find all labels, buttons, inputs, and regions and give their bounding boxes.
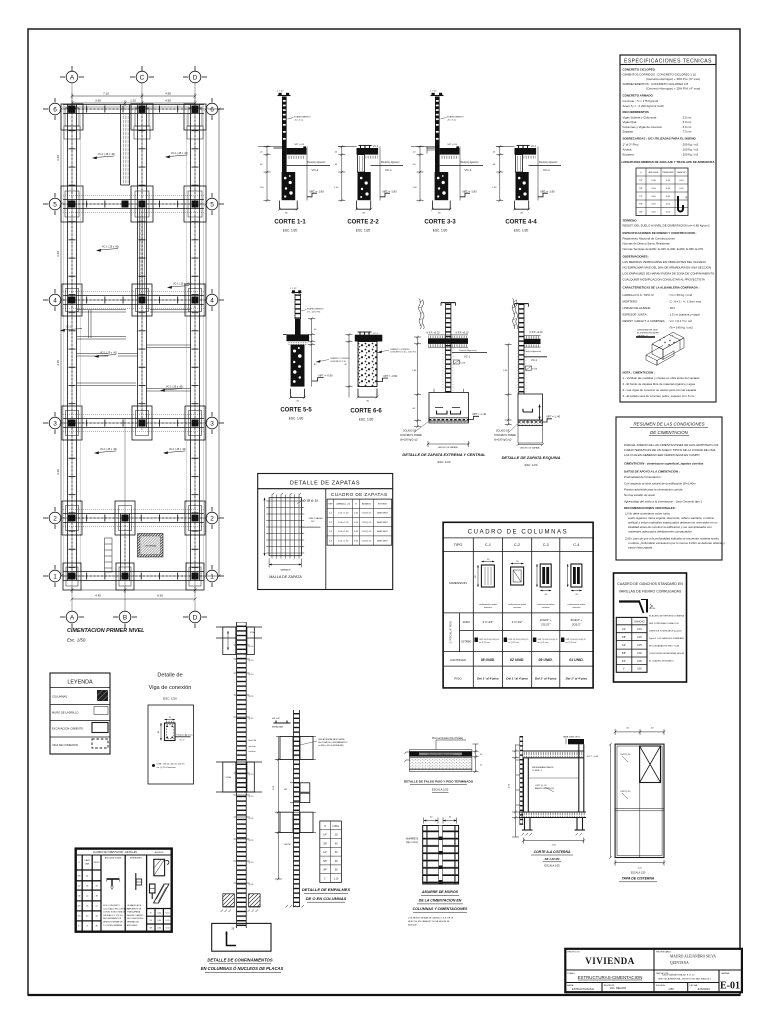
amarre top dims [424,818,457,824]
svg-text:AREA:: AREA: [567,984,574,987]
detalle zapata esquina: bottom dim [517,443,544,446]
svg-text:O1/2@.15: O1/2@.15 [362,522,372,524]
svg-text:Acero f'y = : 4,200 Kg/cm2 G-6: Acero f'y = : 4,200 Kg/cm2 G-60 [623,104,665,108]
svg-text:CANTIDAD: CANTIDAD [450,658,467,662]
svg-text:LONGITUDES MINIMAS DE ANCLAJE: LONGITUDES MINIMAS DE ANCLAJE Y TRASLAPE… [622,160,716,164]
svg-text:1: 1 [210,573,214,580]
malla leader label [297,498,318,503]
footing Z at A5 [61,186,83,222]
svg-text:CONCRETO 1:10 + 30% P.G.: CONCRETO 1:10 + 30% P.G. [390,352,417,354]
svg-text:VAR: VAR [85,863,90,866]
corte 5-5 right dim line [308,317,315,386]
svg-text:3: 3 [210,420,214,427]
svg-text:ESTRUCTURAS-E: ESTRUCTURAS-E [572,987,594,991]
corte 5-5 top anchor [290,288,302,294]
malla left dim [264,498,266,556]
corte 5-5 footing [291,345,305,387]
svg-text:2.- El fondo de zapatas libre: 2.- El fondo de zapatas libre de materia… [623,382,696,386]
svg-text:ESCALA 1/25: ESCALA 1/25 [544,865,560,868]
malla bottom dim [269,559,301,568]
viga section hatch above [165,721,175,723]
annotation VC-1 room C5 [167,283,190,289]
corte 3-3 drawing [411,91,483,215]
svg-text:VIGA: VIGA [226,776,232,779]
svg-text:DE 1.00 M3: DE 1.00 M3 [545,857,560,861]
empalmes bottom hatch [286,905,305,908]
svg-text:(Cemento-Hormigon) + 25% P.M.: (Cemento-Hormigon) + 25% P.M. (4" max) [646,86,700,90]
svg-text:ESTRIBO: ESTRIBO [378,504,388,506]
tapa mid lines [615,783,664,858]
svg-text:AMB SENT: AMB SENT [377,539,388,542]
svg-text:O: O [640,172,642,174]
svg-text:Agresividad del suelo a la cim: Agresividad del suelo a la cimentacion :… [623,500,702,504]
tapa opening with X [640,746,661,783]
detalle zapata esquina: NPT step [543,419,553,422]
axis bubble 3 right [206,412,224,434]
svg-text:S/C: S/C [311,521,315,523]
tapa outer rects [615,744,664,857]
svg-text:3/4": 3/4" [622,660,626,663]
svg-text:MORTERO: MORTERO [623,299,638,303]
svg-text:artificial y estos materiales: artificial y estos materiales inadecuado… [628,521,718,525]
svg-text:VC-1: VC-1 [373,333,379,335]
svg-text:1/2": 1/2" [622,644,626,647]
bottom dimension line 1 [71,587,197,593]
svg-text:"Vc-1": "Vc-1" [179,739,185,741]
svg-text:CORTE 5-5: CORTE 5-5 [280,408,312,414]
svg-text:4: 4 [210,297,214,304]
corte 5-5 hatch row [287,342,308,345]
sheet bottom heavy border [28,994,740,996]
footing Z at A2 [62,501,82,535]
axis bubble D top [183,66,207,83]
svg-text:Normas Tecnicas de Edific. E-0: Normas Tecnicas de Edific. E-020, E-030,… [623,247,704,251]
svg-text:Vigas Ppal.: Vigas Ppal. [623,120,638,124]
svg-text:MURO DE LADRILLO: MURO DE LADRILLO [52,711,78,715]
svg-text:COLUMNAS: COLUMNAS [52,695,67,699]
corte 6-6 top anchors [358,332,379,335]
svg-text:LADRILLO K.K. TIPO IV: LADRILLO K.K. TIPO IV [623,293,654,297]
svg-text:3.- Las vigas de conexion se v: 3.- Las vigas de conexion se vacian junt… [623,388,697,392]
svg-text:LAS MEDIDAS VERIFICARSE EN OBR: LAS MEDIDAS VERIFICARSE EN OBRA ANTES DE… [623,260,707,264]
svg-text:MURO: MURO [463,622,470,624]
column section C-1 [475,559,494,587]
svg-text:CORTE 6-6: CORTE 6-6 [350,409,382,415]
svg-text:SOBRECIMIENTOS : CONCRETO CICL: SOBRECIMIENTOS : CONCRETO CICLOPEO 1:8 [623,82,689,86]
detalle zapata extrema: footing box [429,393,469,422]
svg-text:TIPO: TIPO [454,543,463,547]
svg-text:ESTRIBO: ESTRIBO [461,642,471,644]
svg-text:5: 5 [210,201,214,208]
detalle zapata esquina: footing hook and arrow [523,405,541,420]
falso piso layered band [405,750,472,772]
axis bubble B bottom [113,611,137,628]
svg-text:: f'm = 65 Kg / cm2: : f'm = 65 Kg / cm2 [668,293,692,297]
detalle zapata esquina: piso leader [524,350,547,362]
cuadro valores mid glyph 2 (flag) [130,857,142,891]
svg-text:LA VARILLA DE: LA VARILLA DE [127,904,142,907]
leyenda frame [50,673,110,754]
cisterna bottom dim [522,838,585,844]
footing Z at B2 [115,501,135,535]
annotation VC-1 room A3 [94,448,117,454]
title block labels [567,951,730,987]
axis line 3 [61,422,206,424]
wall band axis 4 [63,296,204,305]
svg-text:Concreto : f'c = 175 Kg/cm2: Concreto : f'c = 175 Kg/cm2 [623,99,659,103]
empalmes ladder column [294,710,300,907]
wall cross ticks axis 2 [68,515,204,522]
svg-text:Con respecto al nivel natural: Con respecto al nivel natural de la edif… [624,482,696,486]
svg-text:3.35: 3.35 [56,469,60,475]
svg-text:O3/8":1@.05,4@.10,4@.15: O3/8":1@.05,4@.10,4@.15 [479,639,499,641]
svg-text:rto. @.25 c/extremo: rto. @.25 c/extremo [157,766,177,769]
svg-text:ESC. 1/20: ESC. 1/20 [356,229,371,233]
svg-text:2O1/2": 2O1/2" [540,623,551,627]
svg-text:PROYECTO:: PROYECTO: [567,952,580,954]
svg-text:(fc=100 Kg/Cm2): (fc=100 Kg/Cm2) [494,440,512,442]
svg-text:1.00 x 1.00: 1.00 x 1.00 [338,513,349,515]
svg-text:5: 5 [53,201,57,208]
svg-text:N.F.P. +0.10: N.F.P. +0.10 [456,331,470,334]
detalle zapata extrema: column rebar ladder [441,303,456,393]
svg-text:ANCLAJES: ANCLAJES [127,924,138,927]
right dimension line [205,108,208,578]
svg-text:3.95: 3.95 [95,99,101,103]
svg-text:REFUERZO SE: REFUERZO SE [127,908,142,910]
svg-text:TERRENO: TERRENO [623,219,638,223]
detalle zapata esquina: fill strips [516,348,519,394]
svg-text:DE O EN COLUMNAS: DE O EN COLUMNAS [306,896,347,901]
svg-text:4.45: 4.45 [95,594,101,598]
viga section drawing [158,717,193,741]
ganchos hook diagram [619,600,653,614]
footing Z at C4 [132,284,152,316]
svg-text:NPT = -1.40: NPT = -1.40 [473,413,487,416]
svg-text:Piso terminado (Frio Pulido): Piso terminado (Frio Pulido) [432,737,463,740]
svg-text:0.30: 0.30 [637,652,642,655]
svg-text:01 UNID.: 01 UNID. [569,658,583,662]
svg-text:DE LA CIMENTACION EN: DE LA CIMENTACION EN [419,899,462,903]
annotation VC-1 room C6 [165,152,188,158]
svg-text:CORTE 4-4: CORTE 4-4 [505,220,537,226]
svg-text:Columnas y Vigas de conexion: Columnas y Vigas de conexion [623,125,663,129]
svg-text:A: A [70,74,75,81]
columnas header labels [454,543,580,547]
corte 6-6 leader cimiento [378,349,417,354]
svg-text:PESO: PESO [94,862,100,864]
partition wall room C-D at 346 [147,345,191,348]
empalmes leader note [300,738,348,747]
detalle zapata esquina: pit below [518,426,543,444]
svg-text:VC-1: VC-1 [66,326,72,329]
footing Z at D4 [185,284,205,316]
svg-text:AMB SENT: AMB SENT [377,512,388,515]
svg-text:Piso(s/c) Agresivo: Piso(s/c) Agresivo [177,733,194,736]
amarre brick wall [423,826,459,885]
viga conexion box [148,705,194,784]
title block frame [565,949,742,992]
svg-text:suelo organico, tierra vegetal: suelo organico, tierra vegetal, desmonte… [628,516,715,520]
svg-text:Lo MIN = 40 Db (EMPALME): Lo MIN = 40 Db (EMPALME) [318,744,344,747]
svg-text:VC-1 (.25 x .40): VC-1 (.25 x .40) [102,246,119,249]
svg-text:08 UNID.: 08 UNID. [481,658,495,662]
svg-text:MINIMOS SERAN DE: MINIMOS SERAN DE [103,921,123,924]
svg-text:4 O 3/4": 4 O 3/4" [482,620,494,624]
svg-text:Vigas Soleras y Columnas: Vigas Soleras y Columnas [623,115,657,119]
svg-text:LADRILLO: LADRILLO [637,335,648,338]
confinamiento ground hatch blocks [221,894,261,912]
svg-text:CALLE SANTA ROSA MZ. B LT. 14: CALLE SANTA ROSA MZ. B LT. 14 [662,974,695,977]
svg-text:Azotea: Azotea [623,148,632,152]
svg-text:E 3/8: E 3/8 [461,362,465,364]
svg-text:Piso(s/c Agresivo): Piso(s/c Agresivo) [525,350,542,353]
resumen paragraphs [623,443,725,550]
svg-text:ESC. 1/20: ESC. 1/20 [438,460,451,464]
axis line 4 [61,299,206,301]
svg-text:H/3 INF: H/3 INF [284,844,292,846]
detalle zapata esquina: slab right [524,336,541,348]
svg-text:TAPA DE CISTERNA: TAPA DE CISTERNA [622,877,655,881]
columnas table frame [443,522,593,688]
axis bubble 2 right [206,507,224,529]
svg-text:NPT = -1.40: NPT = -1.40 [547,416,561,419]
svg-text:3.40: 3.40 [56,251,60,257]
svg-text:02 UNID.: 02 UNID. [510,658,524,662]
viga refuerzo note [152,764,185,770]
svg-text:0.25: 0.25 [637,644,642,647]
svg-text:B: B [123,614,127,621]
axis bubble 5 left [43,193,61,215]
svg-text:LONG.: LONG. [332,826,340,828]
svg-text:CONCRETO CICLOPEO: CONCRETO CICLOPEO [623,68,656,72]
svg-text:1.00 x 1.40: 1.00 x 1.40 [338,531,349,533]
espec iso leader [636,329,659,338]
svg-text:confinamiento ambos: confinamiento ambos [567,603,585,606]
espec iso brick drawing [646,332,684,365]
svg-text:DETALLE DE ZAPATAS: DETALLE DE ZAPATAS [290,480,360,486]
svg-text:VIGA: VIGA [250,631,256,634]
svg-text:Reglamento Nacional de Constru: Reglamento Nacional de Construcciones [623,236,676,240]
svg-text:JUNTA MAYOR QUE: JUNTA MAYOR QUE [637,329,658,332]
svg-text:VC-1 (.25 x .40): VC-1 (.25 x .40) [166,386,183,389]
svg-text:1": 1" [623,668,625,671]
confinamiento top dim arrows [227,631,229,650]
svg-text:DETALLE DE ZAPATA ESQUINA: DETALLE DE ZAPATA ESQUINA [502,455,561,460]
top dimension line 2 [71,100,197,106]
svg-text:Profundidad de Cimentacion :: Profundidad de Cimentacion : [624,475,662,479]
svg-text:CORTE 3-3: CORTE 3-3 [424,220,456,226]
svg-text:ESC. 1/20: ESC. 1/20 [163,697,177,701]
svg-text:HUECOS, EN CABEZA Y SOGA SEGUN: HUECOS, EN CABEZA Y SOGA SEGUN SE [408,920,450,923]
detalle zapata extrema: fill strips beside column [442,348,445,392]
svg-text:EMPALMES: EMPALMES [130,857,142,860]
axis bubble D bottom [183,611,207,628]
empalmes lower beam blocks [276,812,316,832]
svg-text:CUADRO DE GANCHOS STANDARD EN: CUADRO DE GANCHOS STANDARD EN [617,582,683,586]
svg-text:DETALLE DE ZAPATA EXTREMA Y CE: DETALLE DE ZAPATA EXTREMA Y CENTRAL [402,452,486,457]
corte 2-2 drawing [334,145,403,214]
axis bubble 6 right [206,98,224,120]
resumen box frame [616,417,722,560]
svg-text:ESC. 1/20: ESC. 1/20 [359,418,374,422]
footing Z at A4 [62,284,82,316]
espec title bar [620,55,716,65]
svg-text:0.50: 0.50 [637,668,642,671]
svg-text:UBICAR EMPALMES FUERA: UBICAR EMPALMES FUERA [318,738,345,741]
cisterna water line [528,777,579,779]
corte 5-5 solid column [295,319,301,335]
detalle zapata extrema: piso leader [452,349,487,359]
svg-text:1/2": 1/2" [323,852,327,854]
wall band axis 6 [63,105,204,114]
svg-text:confinar: confinar [249,751,256,753]
annotation VC-1 axis A mid [60,326,82,332]
svg-text:ESPESOR JUNTA: ESPESOR JUNTA [623,312,647,316]
svg-text:4O3/4" +: 4O3/4" + [540,618,552,622]
svg-text:2: 2 [210,515,214,522]
svg-text:O3/8" @ .20: O3/8" @ .20 [535,785,547,787]
svg-text:CONCRETO ARMADO: CONCRETO ARMADO [623,94,654,98]
partition wall left at 384 [77,383,136,386]
espec notas [623,371,700,399]
annotation VC-1 room C4 [160,386,183,392]
svg-text:4: 4 [53,297,57,304]
svg-text:CONCRETO 1:10: CONCRETO 1:10 [330,361,347,363]
svg-text:SE DOBLARAN EN FRIO Y LAS: SE DOBLARAN EN FRIO Y LAS [649,645,680,648]
svg-text:UNIDAD DE ALBANIL: UNIDAD DE ALBANIL [623,306,652,310]
svg-text:CORTE 1-1: CORTE 1-1 [274,220,306,226]
svg-text:ESC. 1/20: ESC. 1/20 [514,229,529,233]
svg-text:No hay estudio de suelo: No hay estudio de suelo [624,493,655,497]
svg-text:Presion admisible para la cime: Presion admisible para la cimentacion co… [624,488,683,492]
wall axis C mid vertical strip between 5 and 4 [140,209,145,296]
svg-text:O3/8"@.20: O3/8"@.20 [620,754,631,756]
svg-text:5/8": 5/8" [639,204,643,206]
confinamiento ladder column [237,622,247,928]
cuadro valores frame [76,849,172,932]
annotation VC-1 room A4 [94,352,117,358]
detalle zapata esquina: column rebar ladder [515,304,529,394]
wall axis D vertical [191,105,200,581]
svg-text:CUADRO DE ZAPATAS: CUADRO DE ZAPATAS [331,492,388,497]
annotation VC-1 room C3 [163,448,186,454]
corte 5-5 leader sobrecimiento [301,309,324,314]
cisterna tapa notch [563,736,584,745]
svg-text:2O1/2": 2O1/2" [571,623,582,627]
svg-text:extremos: extremos [573,606,581,609]
corte 3-3 extra left bracket [427,147,435,154]
wall band axis 5 [63,200,204,209]
svg-text:7.5 CM EN ZAPATAS: 7.5 CM EN ZAPATAS [103,924,123,927]
svg-text:extremos: extremos [542,606,550,609]
svg-text:DE LONGITUDES: DE LONGITUDES [127,918,144,920]
svg-text:: 7.5 cm: : 7.5 cm [681,130,692,134]
footing Z at D1 [186,563,204,590]
cisterna interior labels [532,766,554,792]
svg-text:N.F.P. +0.10: N.F.P. +0.10 [427,331,441,334]
svg-text:NOTA :: NOTA : [649,607,656,610]
axis bubble A top [60,66,84,83]
svg-text:: v'm = 8.1 Tn / m2: : v'm = 8.1 Tn / m2 [668,319,692,323]
svg-text:C-4: C-4 [573,543,579,547]
svg-text:Del 1° al 4°piso: Del 1° al 4°piso [506,677,528,681]
svg-text:SEGUN CUADRO: SEGUN CUADRO [127,914,144,917]
svg-text:Del 1° al 4°piso: Del 1° al 4°piso [477,677,499,681]
espec anchor table [636,168,688,216]
svg-text:CIMENTACION : cimentacion supe: CIMENTACION : cimentacion superficial, z… [624,462,704,466]
annotation VC-1 room A5 [96,246,119,252]
svg-text:NOTA : CIMENTACION :: NOTA : CIMENTACION : [623,371,655,375]
svg-text:DETALLE DE EMPALMES: DETALLE DE EMPALMES [302,887,351,892]
svg-text:ANCLAJE: ANCLAJE [649,171,659,174]
svg-text:confinamiento ambos: confinamiento ambos [537,603,555,606]
svg-text:1": 1" [324,879,326,881]
svg-text:DETALLE DE CONFINAMIENTOS: DETALLE DE CONFINAMIENTOS [207,958,272,963]
wall cross ticks axis 3 [68,420,204,427]
detalle zapata esquina: solado text [494,424,518,442]
svg-text:RECUBRIMIENTOS: RECUBRIMIENTOS [623,110,649,114]
svg-text:CIMENTACION PRIMER NIVEL: CIMENTACION PRIMER NIVEL [67,628,144,634]
svg-text:totalidad antes de construir: totalidad antes de construir la edificac… [628,525,712,529]
espec text content [622,68,716,164]
wall band axis 1 [63,572,204,581]
svg-text:Kg/cm2. LOS GANCHOS STANDARD: Kg/cm2. LOS GANCHOS STANDARD [649,637,685,640]
svg-text:E-01: E-01 [720,981,740,992]
svg-text:3/4": 3/4" [639,212,643,214]
confinamiento middle beam blocks [216,762,262,792]
svg-text:C: C [140,74,145,81]
corte 6-6 cyclopean footing [358,342,377,387]
svg-text:COLUMNAS Y CIMENTACIONES: COLUMNAS Y CIMENTACIONES [413,907,469,911]
svg-text:4.- El solado sera de concreto: 4.- El solado sera de concreto pobre, es… [623,394,695,398]
svg-text:Del 1° al 4°piso: Del 1° al 4°piso [535,677,557,681]
svg-text:CANT: CANT [84,859,90,862]
svg-text:ARMADO: ARMADO [362,503,372,506]
wall cross ticks axis D [192,112,199,578]
confinamiento top slab lines [216,627,262,638]
svg-text:TRASLAPARA: TRASLAPARA [127,911,141,914]
axis bubble 4 left [43,289,61,311]
svg-text:EL ESPESOR ENTRE: EL ESPESOR ENTRE [637,333,659,335]
confinamiento top side blocks [223,627,236,655]
bottom dimension line 2 [71,598,197,601]
espec text middle [623,219,716,330]
svg-text:CARACTERISTICAS DE LA ALBANILE: CARACTERISTICAS DE LA ALBANILERIA CONFIN… [623,285,700,289]
svg-text:EL ACERO DE REFUERZO DEBERA: EL ACERO DE REFUERZO DEBERA [649,615,685,618]
svg-text:E 3/8: E 3/8 [533,369,537,371]
svg-text:0.20: 0.20 [637,636,642,639]
detalle zapata extrema: solado band [429,418,469,423]
svg-text:EN COLUMNAS Ó NUCLEOS DE PLA: EN COLUMNAS Ó NUCLEOS DE PLACAS [201,966,284,971]
svg-text:1/50: 1/50 [668,987,674,991]
svg-text:MALLA DE ZAPATA: MALLA DE ZAPATA [269,575,302,579]
svg-text:TAPA (VER DET.): TAPA (VER DET.) [563,736,580,739]
armado values [482,618,582,627]
detalle zapata esquina: solado band [518,420,543,425]
svg-text:3/4": 3/4" [323,870,327,872]
wall cross ticks axis 4 [68,297,204,304]
detalle zapata extrema: footing rebar hooks [435,408,461,415]
svg-text:O3/8"@.20: O3/8"@.20 [620,791,631,793]
footing Z at D2 [185,501,205,535]
svg-text:CIMIENTO CORRIDO: CIMIENTO CORRIDO [330,358,350,360]
partition wall room C-D at 311 [150,310,191,313]
svg-text:Viga de conexión: Viga de conexión [149,685,192,691]
svg-text:SOLADO DE: SOLADO DE [496,430,510,433]
svg-text:: C : A = 1 : 4 , 1.5cm max: : C : A = 1 : 4 , 1.5cm max [668,299,702,303]
svg-text:Del 1° al 4°piso: Del 1° al 4°piso [566,677,588,681]
